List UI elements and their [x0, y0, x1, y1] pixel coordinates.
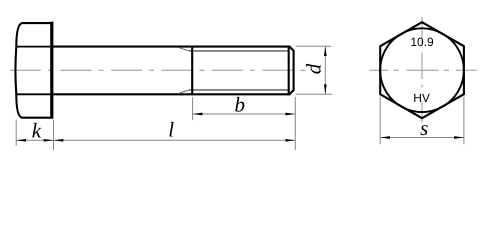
dimension l line: [54, 139, 296, 141]
dimension d arrow up: [324, 46, 327, 56]
dimension k extension right: [53, 120, 55, 151]
dimension s arrow right: [454, 136, 464, 139]
dimension b extension left: [192, 97, 194, 120]
svg-text:10.9: 10.9: [410, 35, 434, 49]
thread root line bottom: [189, 89, 289, 91]
dimension b arrow left: [193, 113, 203, 116]
dimension b line: [193, 113, 296, 115]
vertical centerline (end view): [421, 17, 423, 123]
svg-text:d: d: [302, 63, 326, 74]
svg-text:k: k: [32, 118, 42, 142]
dimension l arrow left: [54, 139, 64, 142]
thread runout diagonal bottom: [178, 90, 189, 94]
svg-text:s: s: [420, 116, 428, 140]
dimension k arrow left: [16, 139, 26, 142]
dimension d line: [324, 46, 326, 94]
shank and thread outline with end chamfer: [53, 47, 293, 95]
hex head outline (side view): [15, 23, 53, 118]
thread root line top: [189, 50, 289, 52]
dimension s extension right: [463, 97, 465, 145]
head washer face (thick vertical): [50, 22, 53, 119]
centerline (bolt axis, side view): [10, 69, 306, 71]
dimension k arrow right: [44, 139, 54, 142]
thread runout diagonal top: [178, 47, 189, 51]
svg-text:l: l: [168, 118, 174, 142]
dimension s line: [380, 137, 464, 139]
dimension l arrow right: [286, 139, 296, 142]
head face line upper: [16, 46, 50, 48]
svg-text:b: b: [234, 93, 245, 117]
head face line lower: [16, 93, 50, 95]
hexagon outline: [380, 22, 464, 118]
dimension k line: [16, 139, 53, 141]
dimension s extension left: [379, 97, 381, 145]
chamfer circle: [380, 28, 464, 112]
dimension s arrow left: [380, 136, 390, 139]
svg-text:HV: HV: [413, 91, 430, 105]
horizontal centerline (end view): [369, 69, 477, 71]
dimension b arrow right: [286, 113, 296, 116]
thread start line: [191, 47, 193, 95]
dimension k extension left: [15, 120, 17, 146]
shared extension at bolt end: [294, 97, 296, 150]
dimension d extension top: [296, 45, 331, 47]
dimension d extension bottom: [296, 93, 332, 95]
dimension d arrow down: [324, 84, 327, 94]
chamfer line at bolt end: [288, 47, 290, 95]
